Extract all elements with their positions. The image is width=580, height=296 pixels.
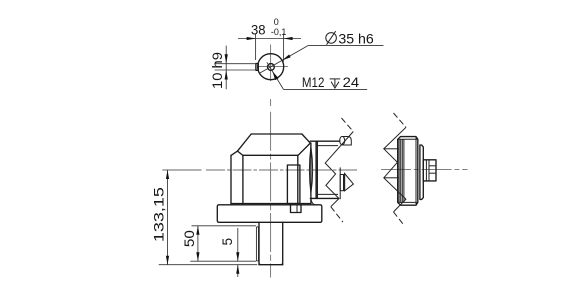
horizontal centerline of circle: [259, 66, 288, 68]
housing bottom edge: [231, 203, 311, 205]
side wall bore line bottom: [384, 177, 399, 179]
depth symbol stem: [334, 79, 336, 86]
disc stack vertical line 1: [398, 139, 400, 202]
5 dimension line upper: [237, 228, 239, 261]
50 arrow bottom: [196, 252, 199, 261]
boss bottom edge: [310, 197, 338, 199]
M12 leader shelf: [284, 88, 368, 90]
horizontal centerline of input axis: [206, 169, 357, 171]
disc inner bottom line: [398, 201, 418, 203]
boss intersection lens left arc: [309, 147, 311, 194]
38 arrow right: [284, 37, 293, 40]
pilot plate: [420, 145, 423, 200]
bottom claw base line: [344, 173, 346, 191]
5 arrow top: [236, 252, 239, 261]
D35 leader arrow: [282, 55, 291, 61]
slot notch inner vertical: [296, 205, 298, 213]
right front slant: [298, 143, 310, 155]
M12 leader line: [267, 62, 284, 89]
hub inner top line: [318, 145, 338, 147]
side zigzag dashed top: [394, 113, 407, 127]
133,15 dimension line: [167, 170, 169, 265]
boss end face vertical 2: [316, 141, 318, 198]
vertical centerline short dash below circle: [270, 99, 272, 106]
keyway extension line bottom: [215, 69, 256, 71]
disc stack vertical line 2: [400, 139, 402, 202]
side zigzag dashed bottom: [394, 212, 404, 224]
key cross-section: [256, 64, 258, 71]
phantom hub end face: [339, 167, 341, 199]
shaft end chamfer left: [259, 263, 260, 265]
shaft keyway slot: [256, 227, 258, 261]
housing front face top edge: [243, 154, 298, 156]
tapped hole circle M12: [268, 64, 275, 71]
10h9 arrow bottom: [225, 70, 228, 80]
fillet to flange top: [311, 198, 316, 205]
133,15 arrow top: [166, 170, 169, 179]
output shaft left edge: [258, 222, 260, 264]
disc right inner edge: [415, 138, 417, 205]
vertical centerline of output shaft: [270, 112, 272, 278]
5 dimension line lower: [237, 265, 239, 277]
left inner vertical edge: [242, 155, 244, 203]
boss top edge: [310, 140, 340, 142]
50 arrow top: [196, 226, 199, 235]
input slot tall rect: [287, 165, 300, 204]
shaft end chamfer right: [281, 263, 282, 265]
side wall bore line top: [384, 148, 399, 150]
133,15 extension line top: [162, 169, 201, 171]
left small slant to front corner: [238, 151, 243, 155]
svg-text:0: 0: [274, 17, 279, 27]
svg-text:35 h6: 35 h6: [338, 31, 374, 46]
shaft groove line 2: [428, 160, 430, 181]
D35 h6 leader shelf: [308, 44, 383, 46]
left outer vertical edge: [230, 155, 232, 203]
left small slant to outer edge: [231, 151, 238, 155]
38 arrow left: [247, 37, 256, 40]
front zigzag solid: [325, 132, 353, 207]
svg-text:10 h9: 10 h9: [210, 52, 225, 89]
flange plate: [217, 205, 321, 223]
top claw body: [342, 137, 351, 146]
right vertical edge: [310, 143, 312, 203]
disc stack vertical line 3: [401, 139, 403, 202]
hub inner bottom line: [318, 193, 338, 195]
left outer chamfer slant: [238, 134, 252, 151]
shaft hex line top: [429, 165, 436, 167]
bottom claw triangle: [345, 174, 354, 191]
svg-text:133,15: 133,15: [152, 187, 167, 242]
svg-text:5: 5: [220, 238, 235, 246]
side axis centerline: [381, 169, 468, 171]
svg-text:38: 38: [251, 22, 266, 37]
5 arrow bottom: [236, 265, 239, 274]
depth symbol chevron: [331, 82, 339, 88]
D35 h6 leader line: [260, 45, 309, 73]
output shaft right edge: [282, 222, 284, 264]
svg-text:24: 24: [343, 75, 360, 90]
svg-text:50: 50: [182, 230, 197, 247]
vertical centerline above/through circle: [270, 45, 272, 82]
133,15 arrow bottom: [166, 256, 169, 265]
right outer chamfer slant: [302, 134, 310, 143]
50 dimension line: [197, 226, 199, 261]
slot notch below flange top: [291, 205, 302, 213]
svg-text:M12: M12: [302, 75, 325, 90]
disc stack vertical line 4: [403, 139, 405, 202]
svg-text:-0,1: -0,1: [271, 27, 287, 37]
shaft end extension line: [159, 264, 258, 266]
keyway extension line top: [215, 63, 256, 65]
shaft circle D35: [258, 54, 284, 80]
disc inner top line: [398, 138, 418, 140]
top claw ellipse: [340, 136, 345, 145]
front face right edge: [297, 155, 299, 203]
shaft hex line bottom: [429, 172, 436, 174]
38 extension line right: [283, 34, 285, 62]
38 dimension line: [238, 38, 301, 40]
shaft stub outline: [423, 160, 436, 181]
disc outer silhouette: [398, 137, 418, 206]
bottom claw rect: [340, 175, 343, 191]
housing top edge: [251, 133, 302, 135]
10h9 arrow top: [225, 54, 228, 64]
diameter symbol: [326, 31, 337, 45]
shaft groove line 1: [425, 160, 427, 181]
50 extension line top: [192, 225, 257, 227]
38 extension line left: [255, 34, 257, 61]
side zigzag solid: [384, 127, 406, 212]
keyway end extension line: [190, 260, 256, 262]
front zigzag dashed bottom: [331, 207, 343, 222]
depth symbol bar: [330, 78, 341, 80]
output shaft end edge: [259, 264, 283, 266]
front zigzag dashed top: [342, 118, 354, 132]
boss intersection lens right arc: [311, 147, 313, 194]
boss end face vertical 1: [315, 141, 317, 198]
M12 leader arrow: [272, 71, 278, 80]
10h9 dimension line: [225, 46, 227, 90]
